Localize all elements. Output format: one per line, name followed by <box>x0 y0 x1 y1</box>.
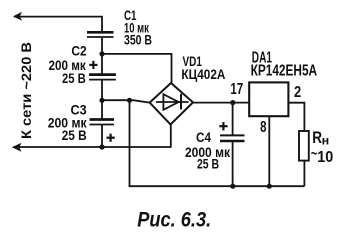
svg-text:17: 17 <box>230 81 243 98</box>
svg-text:25 В: 25 В <box>197 155 219 171</box>
capacitor C1 <box>87 31 114 34</box>
wire node A to C2 <box>101 54 103 74</box>
wire node A to bridge top <box>102 54 172 83</box>
RH label <box>311 129 333 166</box>
node C junction dot <box>99 144 104 149</box>
regulator DA1 box <box>249 82 288 116</box>
VD1 inner diode cathode bar <box>180 94 182 110</box>
C1 value label <box>124 7 152 48</box>
DA1 label <box>251 49 318 79</box>
capacitor C4 <box>220 134 245 136</box>
wire C3 to node C <box>101 125 103 148</box>
svg-text:Рис. 6.3.: Рис. 6.3. <box>137 208 211 232</box>
C2 polarity plus <box>89 61 97 69</box>
wire C4 branch lower <box>232 141 234 186</box>
capacitor C3 <box>90 118 115 121</box>
wire minus rail drop <box>129 100 131 186</box>
wire C4 branch upper <box>232 103 234 136</box>
wire bottom rail <box>129 185 305 187</box>
VD1 inner diode triangle <box>163 94 178 110</box>
svg-text:К сети ~220 В: К сети ~220 В <box>18 42 34 139</box>
svg-text:2: 2 <box>294 84 301 101</box>
wire C2 to node B <box>101 80 103 101</box>
C3 polarity plus <box>107 134 115 142</box>
resistor RH <box>299 131 309 161</box>
svg-text:350 В: 350 В <box>124 32 152 48</box>
wire node B to C3 <box>101 101 103 120</box>
diode bridge VD1 outline <box>150 83 193 125</box>
VD1 inner diode lead <box>156 101 189 103</box>
arrow to mains (bottom) <box>12 143 22 152</box>
wire C1 to node A <box>101 38 103 54</box>
svg-text:R: R <box>312 129 322 147</box>
svg-text:КР142ЕН5А: КР142ЕН5А <box>251 63 318 80</box>
wire DA1 pin 8 drop <box>268 116 270 186</box>
wire bridge plus to DA1 pin 17 <box>193 102 249 104</box>
VD1 label <box>181 53 225 82</box>
svg-text:25 В: 25 В <box>62 70 86 86</box>
wire DA1 pin 2 to load <box>288 103 304 131</box>
wire bottom mains <box>14 125 171 148</box>
svg-text:н: н <box>322 134 330 148</box>
node pin8-rail junction dot <box>267 184 272 189</box>
wire top mains <box>14 17 102 32</box>
svg-text:КЦ402А: КЦ402А <box>181 66 225 82</box>
svg-text:10: 10 <box>317 149 333 166</box>
node C4 bottom junction dot <box>230 184 235 189</box>
wire node B to bridge minus <box>102 100 150 102</box>
svg-text:25 В: 25 В <box>62 127 87 143</box>
svg-text:C4: C4 <box>196 129 211 145</box>
node minus-rail junction dot <box>127 98 132 103</box>
C4 polarity plus <box>219 122 227 130</box>
arrow to mains (top) <box>13 12 22 21</box>
C3 value label <box>48 101 88 143</box>
C4 value label <box>185 129 231 171</box>
node A junction dot <box>99 51 104 56</box>
capacitor C2 <box>89 73 116 76</box>
svg-text:8: 8 <box>260 119 267 136</box>
wire RH to rail <box>303 161 305 187</box>
node C4 top junction dot <box>230 100 235 105</box>
node B junction dot <box>99 98 104 103</box>
C2 value label <box>49 43 87 86</box>
